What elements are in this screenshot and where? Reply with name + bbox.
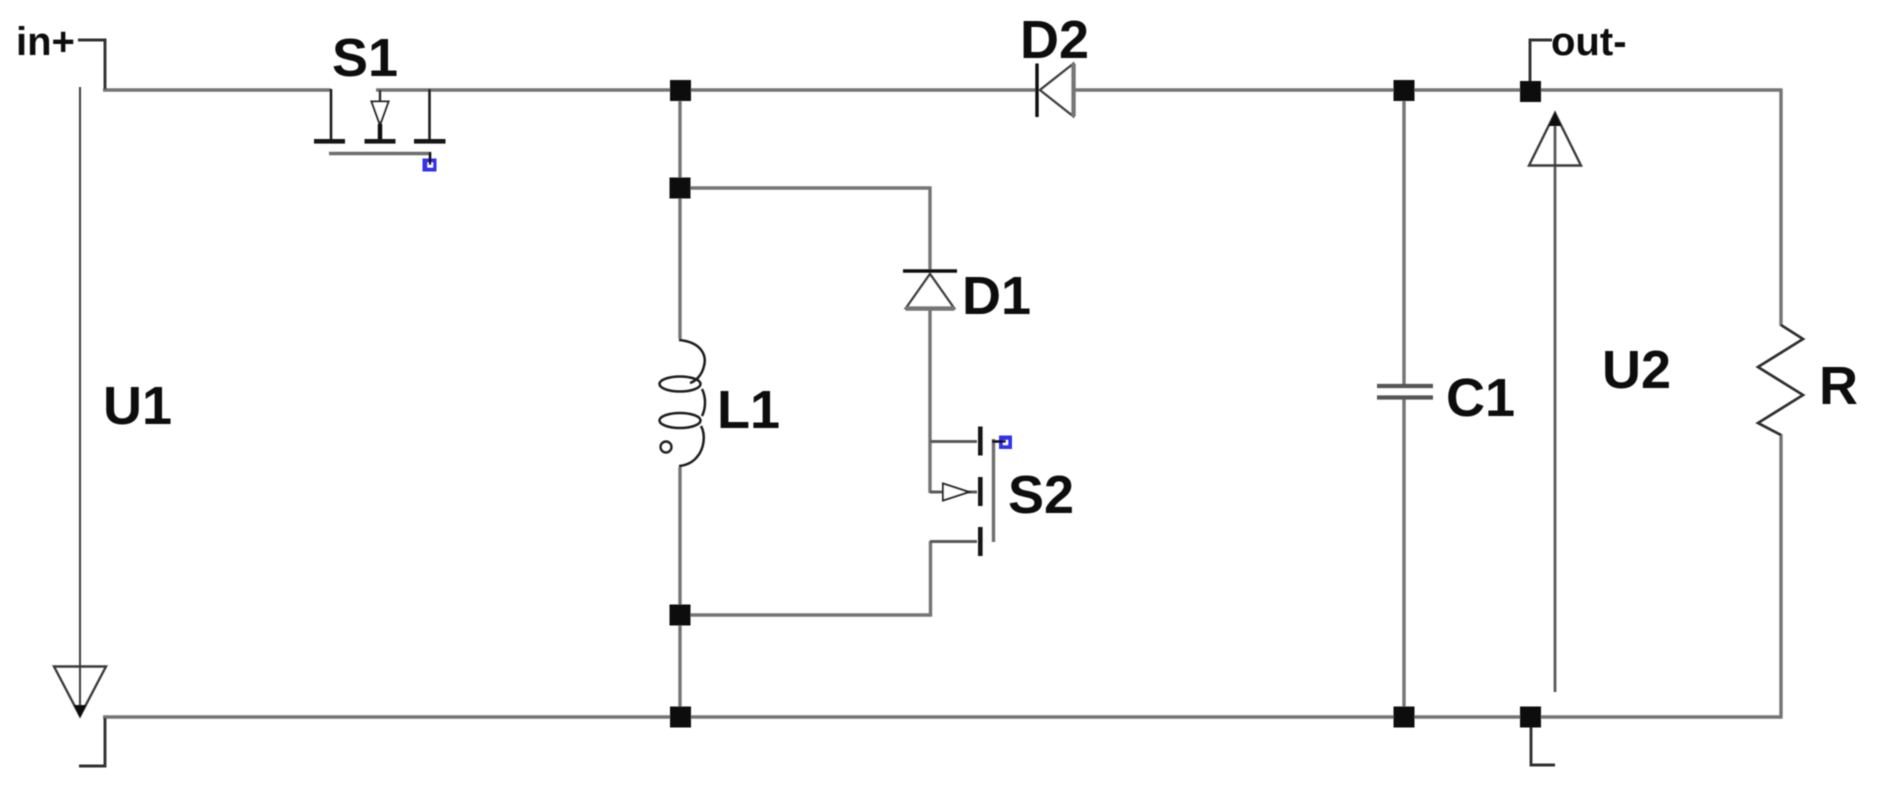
voltage probe U2 arrow line <box>1554 116 1557 692</box>
svg-text:C1: C1 <box>1446 368 1515 428</box>
wire out- terminal lead <box>1530 40 1552 83</box>
diode D2 <box>1037 64 1074 118</box>
S1 channel bar right <box>414 139 446 144</box>
S2 gate line <box>992 439 995 542</box>
D2 triangle <box>1040 64 1073 116</box>
D1 triangle base <box>906 306 955 310</box>
S1 gate line <box>329 152 431 155</box>
voltage source U1 arrow line <box>79 87 81 708</box>
svg-text:U2: U2 <box>1602 340 1671 400</box>
svg-text:D1: D1 <box>962 266 1031 326</box>
wire inner loop top horizontal <box>680 186 932 189</box>
S2 channel bar middle <box>978 477 983 506</box>
svg-text:D2: D2 <box>1020 10 1089 70</box>
wire right side vertical below resistor R <box>1779 434 1782 719</box>
wire in+ terminal lead <box>78 40 105 89</box>
wire C1 branch upper <box>1402 90 1405 385</box>
capacitor C1 plate top <box>1377 384 1433 388</box>
D1 triangle <box>906 274 954 308</box>
voltage source U1 arrowhead <box>54 667 106 719</box>
S1 channel bar middle <box>365 139 396 144</box>
node top L1 junction <box>670 80 691 101</box>
S2 source stub <box>930 540 977 543</box>
wire bottom rail <box>103 715 1782 718</box>
voltage probe U2 arrowhead <box>1529 112 1581 166</box>
svg-text:in+: in+ <box>16 20 75 64</box>
resistor R zigzag <box>1758 325 1803 435</box>
S1 body arrow <box>372 102 389 126</box>
transistor S2 (MOSFET) <box>930 427 1012 557</box>
S2 channel bar top <box>978 427 983 456</box>
wire D1 anode-to-node vertical <box>928 187 931 272</box>
D1 cathode bar <box>903 269 957 272</box>
node bottom L1 junction <box>670 707 691 728</box>
wire L1 branch lower <box>678 467 681 717</box>
inductor L1 polarity dot <box>661 442 672 453</box>
svg-text:out-: out- <box>1551 20 1627 64</box>
node bottom out junction <box>1520 707 1541 728</box>
wire right side vertical above resistor R <box>1779 89 1782 327</box>
S1 source stub <box>330 89 333 139</box>
S1 body stub upper <box>379 90 381 102</box>
diode D1 <box>903 271 957 309</box>
S2 gate terminal stub <box>992 440 1006 443</box>
S2 gate terminal square <box>999 436 1012 450</box>
wire top segment from in+ corner to S1 source <box>103 88 331 91</box>
wire D1 cathode to S2 drain vertical <box>928 309 931 493</box>
S1 drain stub <box>428 89 431 139</box>
wire top segment from S1 drain to D2 cathode <box>376 88 1036 91</box>
node top out- junction <box>1520 81 1541 102</box>
node inner bottom junction <box>670 605 691 626</box>
D2 cathode bar <box>1035 64 1038 118</box>
wire bottom-right terminal hook <box>1531 718 1555 765</box>
wire S2 source vertical <box>929 541 932 617</box>
S2 channel bar bottom <box>978 527 983 556</box>
S1 gate terminal square <box>423 159 437 172</box>
S1 gate terminal stub <box>429 152 432 165</box>
svg-text:L1: L1 <box>717 380 780 440</box>
wire C1 branch lower <box>1402 398 1405 717</box>
S2 drain stub <box>930 440 977 443</box>
node inner top junction <box>670 178 691 199</box>
S1 body stub lower <box>378 124 382 139</box>
wire top segment from D2 to top-right corner <box>1075 88 1782 91</box>
wire inner loop bottom horizontal <box>680 613 932 616</box>
D2 triangle base <box>1071 64 1075 117</box>
svg-text:U1: U1 <box>103 376 172 436</box>
node top C1 junction <box>1394 80 1415 101</box>
capacitor C1 plate bottom <box>1377 395 1433 399</box>
svg-text:R: R <box>1819 356 1858 416</box>
wire L1 branch upper <box>678 90 681 339</box>
svg-text:S2: S2 <box>1008 465 1074 525</box>
wire bottom-left terminal hook <box>79 718 105 766</box>
transistor S1 (MOSFET, rotated) <box>314 89 446 172</box>
node bottom C1 junction <box>1394 707 1415 728</box>
S2 body arrow <box>943 484 969 501</box>
S1 channel bar left <box>314 139 345 144</box>
svg-text:S1: S1 <box>332 28 398 88</box>
inductor L1 coil <box>660 340 706 466</box>
S2 body stub <box>930 491 977 494</box>
